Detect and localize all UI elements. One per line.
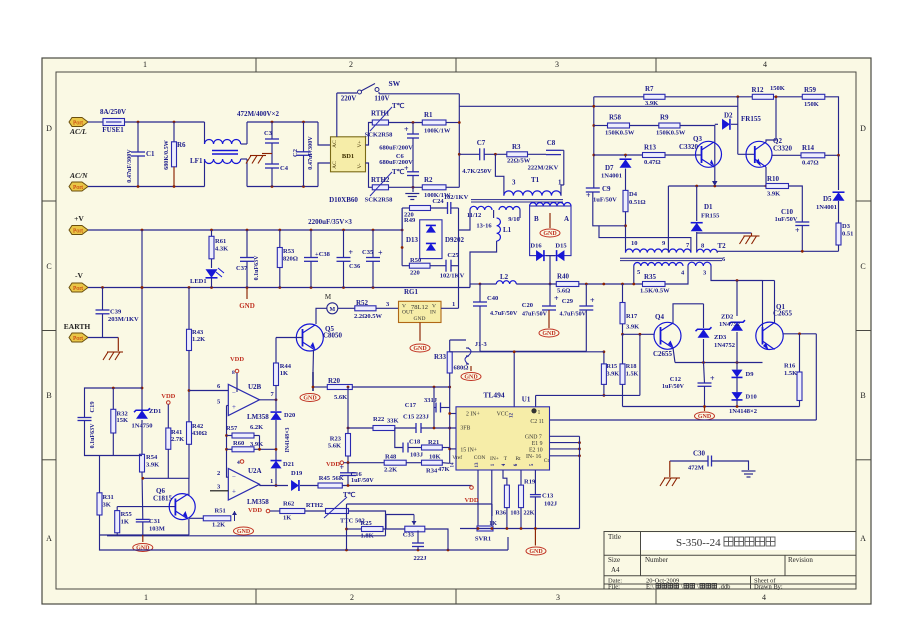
svg-text:T2: T2 (718, 242, 727, 250)
svg-text:C18: C18 (409, 439, 421, 446)
svg-text:C40: C40 (487, 295, 498, 302)
svg-text:AC/L: AC/L (69, 127, 87, 136)
svg-text:680Ω: 680Ω (454, 365, 469, 372)
svg-text:3: 3 (556, 593, 560, 602)
svg-text:13: 13 (475, 462, 480, 468)
svg-text:D: D (46, 124, 52, 133)
svg-text:GND: GND (464, 375, 478, 381)
svg-text:FR155: FR155 (741, 115, 761, 123)
svg-text:C1815: C1815 (153, 495, 173, 503)
svg-text:C8: C8 (547, 139, 556, 147)
svg-text:T℃: T℃ (343, 491, 356, 499)
svg-text:100K/1W: 100K/1W (424, 128, 451, 135)
svg-text:110V: 110V (374, 95, 389, 103)
svg-text:C17: C17 (405, 402, 417, 409)
svg-text:AC/N: AC/N (69, 171, 88, 180)
svg-text:+: + (404, 125, 409, 134)
svg-text:11/12: 11/12 (467, 212, 481, 219)
svg-text:SCK2R58: SCK2R58 (365, 132, 394, 139)
svg-text:R51: R51 (215, 508, 226, 515)
svg-text:220V: 220V (341, 95, 357, 103)
svg-text:4: 4 (763, 60, 767, 69)
svg-text:RTH2: RTH2 (371, 176, 390, 184)
svg-text:A4: A4 (611, 566, 620, 574)
svg-text:VDD: VDD (248, 507, 262, 514)
svg-text:150K: 150K (804, 101, 819, 108)
svg-text:1N4750: 1N4750 (132, 423, 153, 430)
svg-text:R6: R6 (177, 141, 186, 149)
svg-text:4: 4 (762, 593, 766, 602)
svg-text:RG1: RG1 (404, 288, 419, 296)
svg-text:GND: GND (303, 396, 317, 402)
svg-text:150K0.5W: 150K0.5W (656, 130, 686, 137)
svg-text:C31: C31 (149, 518, 160, 525)
svg-text:J1-3: J1-3 (475, 341, 488, 348)
svg-text:R9: R9 (660, 114, 669, 122)
svg-text:FR155: FR155 (701, 213, 720, 220)
svg-text:472M: 472M (688, 465, 704, 472)
svg-text:R20: R20 (328, 377, 341, 385)
svg-text:D: D (860, 124, 866, 133)
svg-text:U1: U1 (522, 396, 531, 404)
svg-text:10K: 10K (429, 454, 441, 461)
svg-text:R18: R18 (626, 363, 637, 370)
svg-text:LM358: LM358 (247, 413, 269, 421)
svg-text:C36: C36 (349, 263, 361, 270)
svg-text:D10: D10 (746, 394, 757, 401)
svg-text:GND: GND (239, 302, 255, 310)
svg-text:IN- 16: IN- 16 (526, 454, 541, 460)
svg-text:R59: R59 (804, 86, 817, 94)
svg-text:+: + (554, 294, 559, 303)
svg-text:−: − (232, 389, 236, 397)
svg-text:4: 4 (237, 460, 240, 466)
svg-text:R50: R50 (410, 257, 421, 264)
svg-text:1N4752: 1N4752 (719, 321, 740, 328)
svg-text:L1: L1 (503, 226, 512, 234)
svg-text:150K0.5W: 150K0.5W (605, 130, 635, 137)
svg-text:+: + (339, 463, 344, 472)
svg-text:R49: R49 (404, 217, 416, 224)
svg-text:E1 9: E1 9 (532, 441, 543, 447)
svg-text:9/10: 9/10 (508, 216, 520, 223)
svg-text:GND 7: GND 7 (525, 435, 542, 441)
svg-text:+: + (232, 488, 236, 496)
svg-text:C25: C25 (447, 252, 459, 259)
svg-text:D9: D9 (746, 371, 755, 378)
svg-text:S-350--24: S-350--24 (676, 537, 721, 549)
svg-text:472M/400V×2: 472M/400V×2 (237, 110, 280, 118)
svg-text:2: 2 (217, 470, 220, 477)
svg-text:C33: C33 (403, 532, 415, 539)
svg-text:Revision: Revision (788, 556, 813, 564)
svg-text:C3: C3 (264, 130, 273, 137)
svg-text:ZD1: ZD1 (149, 408, 161, 415)
svg-text:VCC: VCC (497, 412, 509, 418)
svg-text:A: A (860, 534, 866, 543)
svg-text:15K: 15K (117, 417, 129, 424)
svg-text:8A/250V: 8A/250V (100, 108, 126, 116)
svg-text:R13: R13 (644, 144, 657, 152)
svg-text:D15: D15 (555, 243, 567, 250)
svg-text:820Ω: 820Ω (283, 256, 298, 263)
svg-text:3.9K: 3.9K (626, 324, 639, 331)
svg-text:R12: R12 (752, 86, 765, 94)
svg-text:Port: Port (73, 286, 83, 292)
svg-text:VDD: VDD (326, 461, 340, 468)
svg-text:.ddb: .ddb (719, 584, 730, 591)
svg-text:U2B: U2B (248, 383, 262, 391)
svg-text:R42: R42 (192, 423, 203, 430)
svg-text:C35: C35 (362, 249, 374, 256)
svg-text:R17: R17 (626, 313, 638, 320)
svg-text:R16: R16 (784, 363, 796, 370)
svg-text:1K: 1K (283, 515, 291, 522)
svg-text:C8050: C8050 (323, 332, 343, 340)
svg-text:47K: 47K (438, 466, 450, 473)
svg-text:3.9K: 3.9K (767, 191, 780, 198)
svg-text:Size: Size (608, 556, 620, 564)
svg-text:680uF/200V: 680uF/200V (379, 145, 413, 152)
svg-text:CON: CON (474, 455, 486, 461)
svg-text:1N4752: 1N4752 (714, 342, 735, 349)
svg-text:33K: 33K (387, 418, 399, 425)
svg-text:C3320: C3320 (679, 143, 699, 151)
svg-text:+: + (710, 374, 715, 383)
svg-text:R45: R45 (319, 475, 331, 482)
svg-text:T1: T1 (531, 176, 540, 184)
svg-text:78L12: 78L12 (411, 304, 428, 311)
svg-text:1.5K/0.5W: 1.5K/0.5W (640, 288, 670, 295)
svg-text:GND: GND (698, 414, 712, 420)
svg-text:Title: Title (608, 533, 621, 541)
svg-text:1.2K: 1.2K (212, 522, 225, 529)
svg-text:+: + (378, 249, 383, 258)
svg-text:C7: C7 (477, 139, 486, 147)
svg-text:L2: L2 (500, 273, 509, 281)
svg-text:D7: D7 (605, 164, 614, 172)
svg-text:R44: R44 (280, 363, 292, 370)
svg-text:1N4001: 1N4001 (816, 204, 837, 211)
svg-text:GND: GND (543, 231, 557, 237)
svg-text:C30: C30 (693, 450, 706, 458)
svg-text:IN: IN (430, 310, 436, 316)
svg-text:47uF/50V: 47uF/50V (522, 312, 548, 318)
svg-text:103: 103 (510, 510, 519, 517)
svg-text:1N4001: 1N4001 (601, 173, 622, 180)
svg-text:D9202: D9202 (445, 236, 465, 244)
svg-text:LED1: LED1 (190, 278, 207, 285)
svg-text:2.7K: 2.7K (171, 436, 184, 443)
svg-text:IN4148×3: IN4148×3 (285, 427, 291, 452)
svg-text:Drawn By:: Drawn By: (754, 584, 783, 591)
svg-text:RTH1: RTH1 (371, 110, 390, 118)
svg-text:R21: R21 (428, 439, 439, 446)
svg-text:R34: R34 (426, 468, 438, 475)
svg-text:C15 223J: C15 223J (403, 414, 430, 421)
svg-text:3.9K: 3.9K (250, 441, 263, 448)
svg-text:1K: 1K (121, 519, 129, 526)
svg-text:C1: C1 (146, 150, 155, 158)
svg-text:0.1uF63V: 0.1uF63V (90, 423, 96, 449)
svg-text:3.9K: 3.9K (607, 371, 620, 378)
svg-text:22Ω/5W: 22Ω/5W (507, 158, 531, 165)
svg-text:C39: C39 (110, 309, 122, 316)
svg-text:LM358: LM358 (247, 498, 269, 506)
svg-text:+: + (232, 403, 236, 411)
svg-text:M: M (325, 293, 332, 301)
svg-text:D1: D1 (704, 203, 713, 211)
svg-text:D21: D21 (283, 461, 294, 468)
svg-text:D2: D2 (724, 112, 733, 120)
svg-text:GND: GND (136, 546, 150, 552)
svg-text:1K: 1K (280, 370, 288, 377)
svg-text:C13: C13 (542, 493, 554, 500)
svg-text:+: + (404, 164, 409, 173)
svg-text:R23: R23 (330, 436, 342, 443)
svg-text:R22: R22 (373, 416, 384, 423)
svg-text:R25: R25 (361, 520, 373, 527)
svg-text:R40: R40 (557, 273, 570, 281)
svg-text:1.8K: 1.8K (361, 533, 374, 540)
svg-text:Port: Port (73, 229, 83, 235)
svg-text:R7: R7 (645, 85, 654, 93)
svg-text:1.2K: 1.2K (192, 336, 205, 343)
svg-text:A: A (46, 534, 52, 543)
svg-text:C24: C24 (432, 198, 444, 205)
svg-text:2: 2 (349, 60, 353, 69)
svg-text:D20: D20 (284, 412, 295, 419)
svg-text:C: C (46, 262, 51, 271)
svg-text:R58: R58 (609, 114, 622, 122)
svg-text:0.47uF/300V: 0.47uF/300V (126, 149, 133, 183)
svg-text:VDD: VDD (161, 393, 175, 400)
svg-text:1uF/50V: 1uF/50V (351, 477, 374, 484)
svg-text:C9: C9 (602, 185, 611, 193)
svg-text:Port: Port (73, 185, 83, 191)
svg-text:1: 1 (538, 410, 541, 416)
svg-text:V+: V+ (357, 140, 363, 147)
svg-text:R1: R1 (424, 111, 433, 119)
svg-text:-V: -V (75, 271, 83, 280)
svg-text:C3320: C3320 (773, 145, 793, 153)
svg-text:680K/0.5W: 680K/0.5W (163, 139, 170, 170)
svg-text:1: 1 (144, 593, 148, 602)
svg-text:3K: 3K (103, 502, 111, 509)
svg-text:R14: R14 (802, 144, 815, 152)
svg-text:D4: D4 (629, 191, 638, 198)
svg-text:B: B (46, 391, 51, 400)
svg-text:U2A: U2A (248, 467, 262, 475)
svg-text:4.7K/250V: 4.7K/250V (462, 168, 492, 175)
svg-text:2.2K: 2.2K (384, 467, 397, 474)
svg-text:R53: R53 (283, 248, 295, 255)
svg-text:SCK2R58: SCK2R58 (365, 197, 394, 204)
svg-text:D5: D5 (823, 195, 832, 203)
svg-text:3: 3 (512, 179, 516, 187)
svg-text:10: 10 (631, 240, 638, 247)
svg-text:222M/2KV: 222M/2KV (528, 165, 559, 172)
svg-text:T℃: T℃ (392, 102, 405, 110)
svg-text:R55: R55 (121, 511, 133, 518)
svg-text:5.6K: 5.6K (328, 443, 341, 450)
svg-text:14: 14 (451, 462, 456, 468)
svg-text:C2: C2 (292, 149, 299, 157)
svg-text:C19: C19 (89, 401, 96, 413)
svg-text:4.7uF/50V: 4.7uF/50V (490, 310, 518, 317)
svg-text:R33: R33 (434, 353, 447, 361)
svg-text:331J: 331J (424, 397, 438, 404)
svg-text:D16: D16 (530, 243, 542, 250)
svg-text:3FB: 3FB (460, 426, 470, 432)
svg-text:5.6K: 5.6K (334, 394, 347, 401)
svg-text:0.51: 0.51 (842, 231, 853, 238)
svg-text:D13: D13 (406, 236, 419, 244)
svg-text:C37: C37 (236, 265, 248, 272)
svg-text:R57: R57 (226, 425, 238, 432)
svg-text:E2 10: E2 10 (529, 447, 543, 453)
svg-text:GND: GND (414, 316, 426, 322)
svg-text:GND: GND (542, 331, 556, 337)
svg-text:+: + (586, 191, 591, 200)
svg-text:103J: 103J (410, 452, 424, 459)
svg-text:\: \ (697, 584, 699, 591)
svg-text:430Ω: 430Ω (192, 430, 207, 437)
svg-text:3.9K: 3.9K (645, 100, 658, 107)
svg-text:B: B (534, 215, 539, 223)
svg-text:C10: C10 (781, 208, 794, 216)
svg-text:22K: 22K (523, 510, 534, 517)
svg-text:EARTH: EARTH (64, 322, 91, 331)
svg-text:E:\: E:\ (646, 584, 654, 591)
svg-text:C: C (860, 262, 865, 271)
svg-text:R10: R10 (767, 175, 780, 183)
svg-text:1.5K: 1.5K (626, 371, 639, 378)
svg-text:R61: R61 (215, 238, 226, 245)
svg-text:3: 3 (555, 60, 559, 69)
svg-text:+: + (590, 296, 595, 305)
svg-text:R2: R2 (424, 176, 433, 184)
svg-text:M: M (329, 307, 335, 313)
svg-text:Port: Port (73, 121, 83, 127)
svg-text:ZD2: ZD2 (721, 314, 733, 321)
svg-text:C2655: C2655 (653, 350, 673, 358)
svg-text:3.9K: 3.9K (146, 462, 159, 469)
svg-text:RTH2: RTH2 (306, 502, 323, 509)
svg-text:1uF/50V: 1uF/50V (775, 216, 798, 223)
svg-text:SW: SW (389, 79, 401, 88)
svg-text:R19: R19 (524, 479, 536, 486)
svg-text:222J: 222J (414, 555, 428, 562)
svg-text:A: A (564, 215, 569, 223)
svg-text:VDD: VDD (464, 497, 478, 504)
svg-text:4.7uF/50V: 4.7uF/50V (559, 312, 586, 318)
svg-text:1: 1 (452, 301, 455, 308)
svg-text:GND: GND (529, 549, 543, 555)
svg-text:LF1: LF1 (190, 157, 203, 165)
svg-text:0.1uF63V: 0.1uF63V (254, 255, 260, 281)
svg-text:R43: R43 (192, 329, 204, 336)
svg-text:R35: R35 (644, 273, 657, 281)
svg-text:203M/1KV: 203M/1KV (108, 316, 139, 323)
svg-text:0.51Ω: 0.51Ω (629, 199, 646, 206)
svg-text:R3: R3 (512, 143, 521, 151)
svg-text:C2655: C2655 (773, 310, 793, 318)
svg-text:D19: D19 (291, 470, 303, 477)
svg-text:+V: +V (74, 214, 84, 223)
svg-text:0.47uF/300V: 0.47uF/300V (307, 136, 314, 170)
svg-text:V-: V- (357, 163, 363, 168)
svg-text:+: + (795, 226, 800, 235)
svg-text:15 IN+: 15 IN+ (460, 448, 477, 454)
svg-text:103M: 103M (149, 526, 165, 533)
svg-text:2.2Ω0.5W: 2.2Ω0.5W (354, 313, 382, 320)
svg-text:+: + (349, 248, 354, 257)
svg-text:8: 8 (232, 370, 235, 376)
svg-text:Q4: Q4 (655, 313, 664, 321)
svg-text:2: 2 (350, 593, 354, 602)
svg-text:12: 12 (509, 413, 514, 419)
svg-text:102/1KV: 102/1KV (444, 194, 469, 201)
svg-text:56K: 56K (332, 475, 344, 482)
svg-text:T℃: T℃ (392, 168, 405, 176)
svg-text:GND: GND (413, 346, 427, 352)
svg-text:Q3: Q3 (693, 135, 702, 143)
svg-text:102J: 102J (544, 501, 558, 508)
svg-text:GND: GND (237, 529, 251, 535)
svg-text:1uF/50V: 1uF/50V (593, 197, 617, 204)
svg-text:File:: File: (608, 584, 620, 591)
svg-text:2 IN+: 2 IN+ (466, 412, 480, 418)
svg-text:1: 1 (270, 478, 273, 485)
svg-text:0.47Ω: 0.47Ω (802, 160, 819, 167)
svg-text:ZD3: ZD3 (714, 334, 727, 341)
svg-text:D10XB60: D10XB60 (329, 196, 358, 204)
svg-text:SVR1: SVR1 (475, 536, 491, 543)
svg-text:B: B (860, 391, 865, 400)
svg-text:4.3K: 4.3K (215, 246, 228, 253)
svg-text:AC: AC (332, 161, 338, 169)
svg-text:FUSE1: FUSE1 (102, 126, 124, 134)
svg-text:R54: R54 (146, 454, 158, 461)
svg-text:AC: AC (332, 140, 338, 148)
svg-text:VDD: VDD (230, 356, 244, 363)
svg-text:5.6Ω: 5.6Ω (557, 288, 570, 295)
svg-text:1.5K: 1.5K (784, 370, 797, 377)
svg-text:0.47Ω: 0.47Ω (644, 159, 661, 166)
svg-text:R41: R41 (171, 429, 182, 436)
svg-text:1: 1 (143, 60, 147, 69)
svg-text:C12: C12 (670, 376, 681, 383)
svg-text:R48: R48 (385, 454, 397, 461)
svg-text:C4: C4 (280, 165, 289, 172)
svg-text:R62: R62 (283, 501, 294, 508)
svg-text:IN+: IN+ (490, 456, 499, 462)
svg-text:C20: C20 (522, 302, 533, 309)
svg-text:Number: Number (645, 556, 669, 564)
svg-text:TL494: TL494 (483, 391, 505, 400)
svg-text:R31: R31 (103, 494, 114, 501)
svg-text:220: 220 (410, 270, 420, 277)
svg-text:−: − (232, 473, 236, 481)
svg-text:2200uF/35V×3: 2200uF/35V×3 (308, 218, 352, 226)
svg-text:R60: R60 (233, 440, 244, 447)
svg-text:102/1KV: 102/1KV (440, 273, 465, 280)
svg-text:\: \ (681, 584, 683, 591)
svg-text:Ct: Ct (544, 458, 550, 464)
svg-text:R36: R36 (495, 510, 506, 517)
svg-text:R52: R52 (356, 299, 369, 307)
